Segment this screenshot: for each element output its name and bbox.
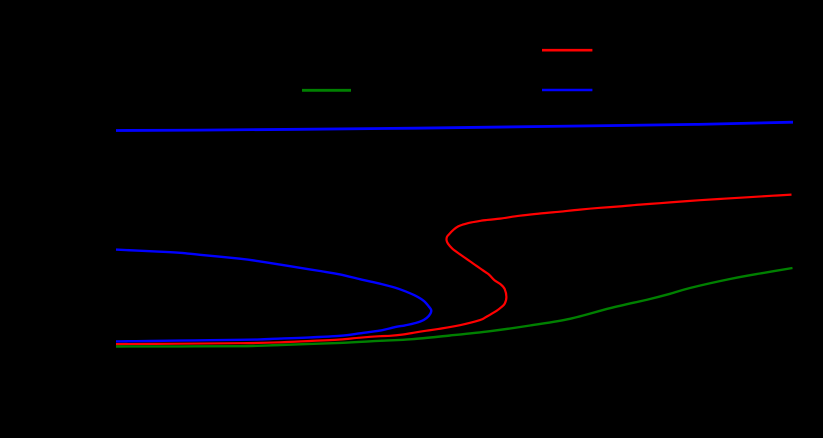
legend green line sample — [302, 89, 351, 92]
blue loop curve — [116, 250, 431, 342]
legend blue line sample — [542, 89, 592, 92]
blue top curve — [116, 122, 793, 130]
legend red line sample — [542, 49, 592, 52]
red S curve — [116, 195, 792, 345]
green curve — [116, 268, 793, 347]
